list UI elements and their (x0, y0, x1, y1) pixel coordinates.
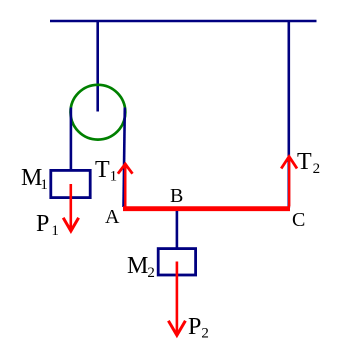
wire right support (287, 21, 290, 208)
ceiling (50, 20, 317, 22)
mass M1 box (51, 170, 90, 197)
node A (105, 207, 119, 227)
wire left support (96, 21, 99, 112)
wire left rope (70, 108, 73, 172)
node B (170, 186, 183, 206)
label M1 (21, 166, 48, 193)
arrow P1 (63, 184, 78, 231)
node C (292, 210, 305, 230)
label T2 (297, 150, 320, 177)
arrow P2 (168, 262, 185, 336)
label P2 (188, 315, 209, 342)
arrow T2 (281, 157, 297, 207)
label P1 (36, 212, 59, 239)
arrow T1 (118, 164, 133, 207)
beam ABC (123, 206, 290, 211)
label T1 (95, 158, 117, 185)
mass M2 box (158, 249, 195, 275)
wire M2 hanger (176, 211, 179, 249)
label M2 (127, 254, 155, 281)
pulley (71, 85, 126, 140)
wire right rope (124, 108, 125, 208)
